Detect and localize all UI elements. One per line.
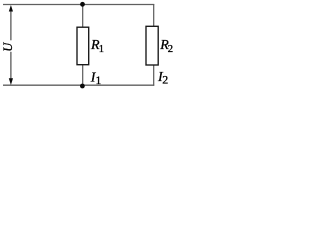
voltage arrow U line lower [10, 52, 12, 80]
svg-text:I1: I1 [90, 70, 102, 87]
wire R1 branch top [82, 5, 84, 28]
svg-text:U: U [1, 42, 15, 52]
wire bottom rail [3, 84, 154, 86]
svg-text:R2: R2 [159, 38, 173, 55]
node junction dot bottom [80, 84, 85, 89]
wire top rail [3, 4, 154, 6]
wire R1 branch bottom [82, 65, 84, 86]
voltage arrow U line upper [10, 11, 12, 41]
wire right branch top [153, 4, 155, 27]
voltage arrow head up [9, 5, 13, 12]
node junction dot top [80, 2, 85, 7]
wire right branch bottom [153, 65, 155, 86]
voltage arrow head down [9, 78, 13, 85]
resistor R1 [77, 27, 89, 64]
svg-text:R1: R1 [90, 38, 104, 55]
svg-text:I2: I2 [157, 70, 168, 87]
resistor R2 [146, 26, 158, 65]
